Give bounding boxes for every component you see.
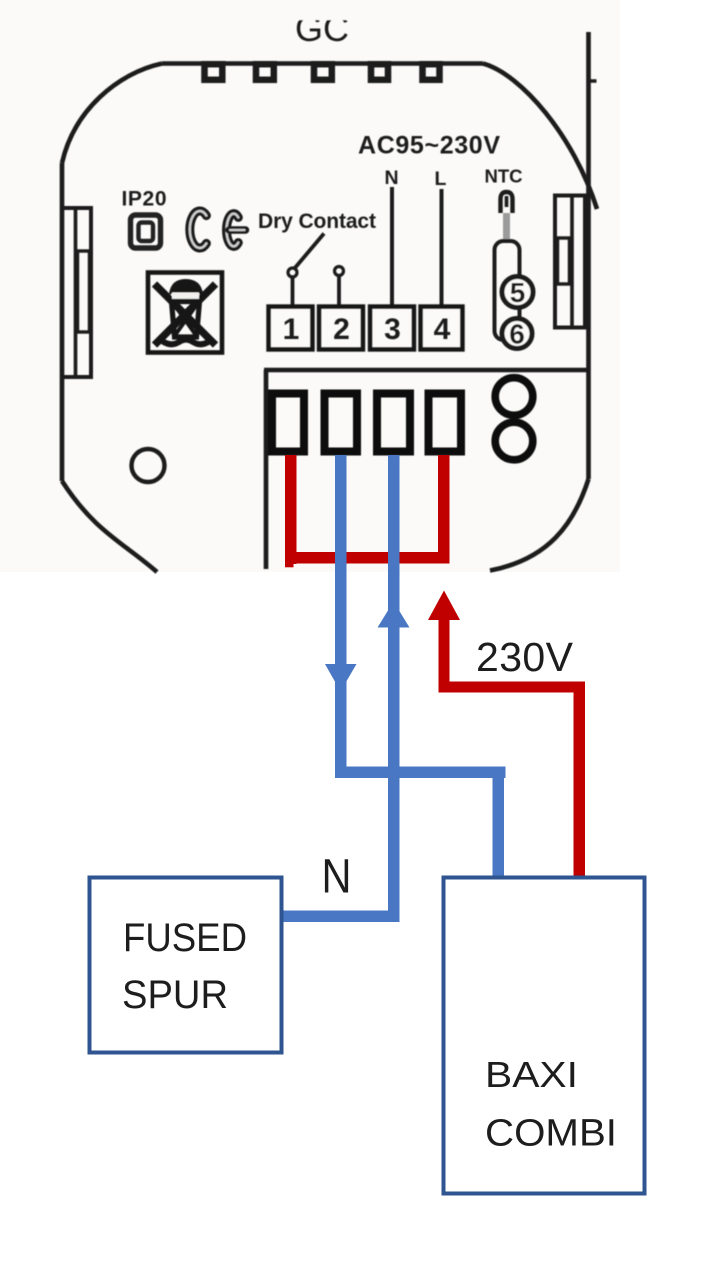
svg-text:6: 6	[509, 319, 525, 350]
svg-text:N: N	[322, 851, 352, 904]
svg-text:3: 3	[384, 313, 401, 346]
svg-text:230V: 230V	[476, 634, 574, 680]
svg-text:1: 1	[283, 313, 300, 346]
svg-text:FUSED: FUSED	[123, 916, 247, 960]
svg-text:NTC: NTC	[484, 166, 522, 187]
svg-text:IP20: IP20	[122, 188, 168, 211]
svg-text:4: 4	[434, 313, 451, 346]
svg-text:L: L	[435, 168, 447, 190]
svg-text:2: 2	[333, 313, 350, 346]
svg-text:Dry Contact: Dry Contact	[258, 210, 376, 233]
svg-text:AC95~230V: AC95~230V	[358, 132, 500, 160]
svg-text:COMBI: COMBI	[485, 1113, 617, 1155]
svg-text:BAXI: BAXI	[485, 1054, 578, 1095]
svg-text:N: N	[384, 167, 398, 189]
svg-text:SPUR: SPUR	[122, 973, 228, 1017]
svg-text:5: 5	[510, 277, 526, 308]
